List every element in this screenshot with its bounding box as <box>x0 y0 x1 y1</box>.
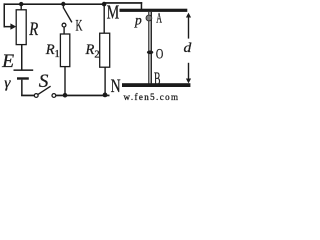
node: junction of R top lead with top bus <box>19 2 23 6</box>
capacitor plate M <box>120 9 188 12</box>
battery E: short negative plate <box>17 77 29 79</box>
resistor R1 <box>60 34 69 67</box>
wire: R2 top lead <box>104 4 105 33</box>
svg-text:p: p <box>134 12 142 27</box>
node: R2 bottom junction on bottom bus <box>103 93 108 98</box>
wire: switch K fixed stub <box>63 4 64 8</box>
wire: R top lead <box>21 4 22 10</box>
wire: R bottom lead down to battery <box>21 45 23 70</box>
wire: K lower terminal to R1 top <box>63 27 64 34</box>
switch K: blade (open, hanging) <box>64 8 72 22</box>
resistor R (rheostat body) <box>16 10 26 45</box>
wire: R1 bottom lead <box>64 67 65 95</box>
svg-text:S: S <box>39 71 49 92</box>
dimension d: upper arrow (points up to plate M) <box>188 16 189 39</box>
svg-text:N: N <box>111 77 121 97</box>
wire: battery negative lead down to bottom bus <box>21 80 23 96</box>
svg-text:K: K <box>76 18 83 35</box>
wire: bottom bus from switch S to R2 bottom node <box>56 95 110 97</box>
capacitor plate N <box>122 83 190 87</box>
path line A-B (double line between plates) <box>148 12 149 84</box>
charged ball p at point A <box>146 15 152 21</box>
battery E: long positive plate <box>14 69 34 71</box>
node: R1 bottom junction on bottom bus <box>63 93 68 98</box>
svg-text:R: R <box>28 19 38 40</box>
wire: left vertical drop to rheostat wiper <box>4 3 6 27</box>
svg-text:w.fen5.com: w.fen5.com <box>124 92 180 101</box>
wire: top-right feed from R2 node toward plate M <box>104 2 142 4</box>
svg-text:γ: γ <box>4 76 11 92</box>
switch S: blade (open) <box>38 86 51 94</box>
svg-text:O: O <box>156 46 164 62</box>
point O marker on path line <box>147 51 153 55</box>
node: R2 top junction on top bus <box>102 2 107 7</box>
svg-text:A: A <box>156 11 162 27</box>
wiper arrow of rheostat R <box>4 26 11 28</box>
node: K top junction on top bus <box>61 2 65 6</box>
resistor R2 <box>100 33 110 67</box>
svg-text:d: d <box>184 41 193 56</box>
wire: vertical drop onto plate M <box>141 2 143 9</box>
svg-text:E: E <box>1 51 15 72</box>
wire: R2 bottom lead <box>104 67 105 95</box>
wire: top bus from top-left corner to R2 top node <box>4 3 105 5</box>
dimension d: lower arrow (points down to plate N) <box>188 63 189 79</box>
wire: bottom bus left segment to switch S <box>21 95 34 97</box>
svg-text:M: M <box>107 3 120 24</box>
switch S: right terminal <box>52 94 56 98</box>
switch K: lower terminal <box>62 23 66 27</box>
switch S: left terminal <box>34 94 38 98</box>
svg-text:B: B <box>154 69 161 89</box>
